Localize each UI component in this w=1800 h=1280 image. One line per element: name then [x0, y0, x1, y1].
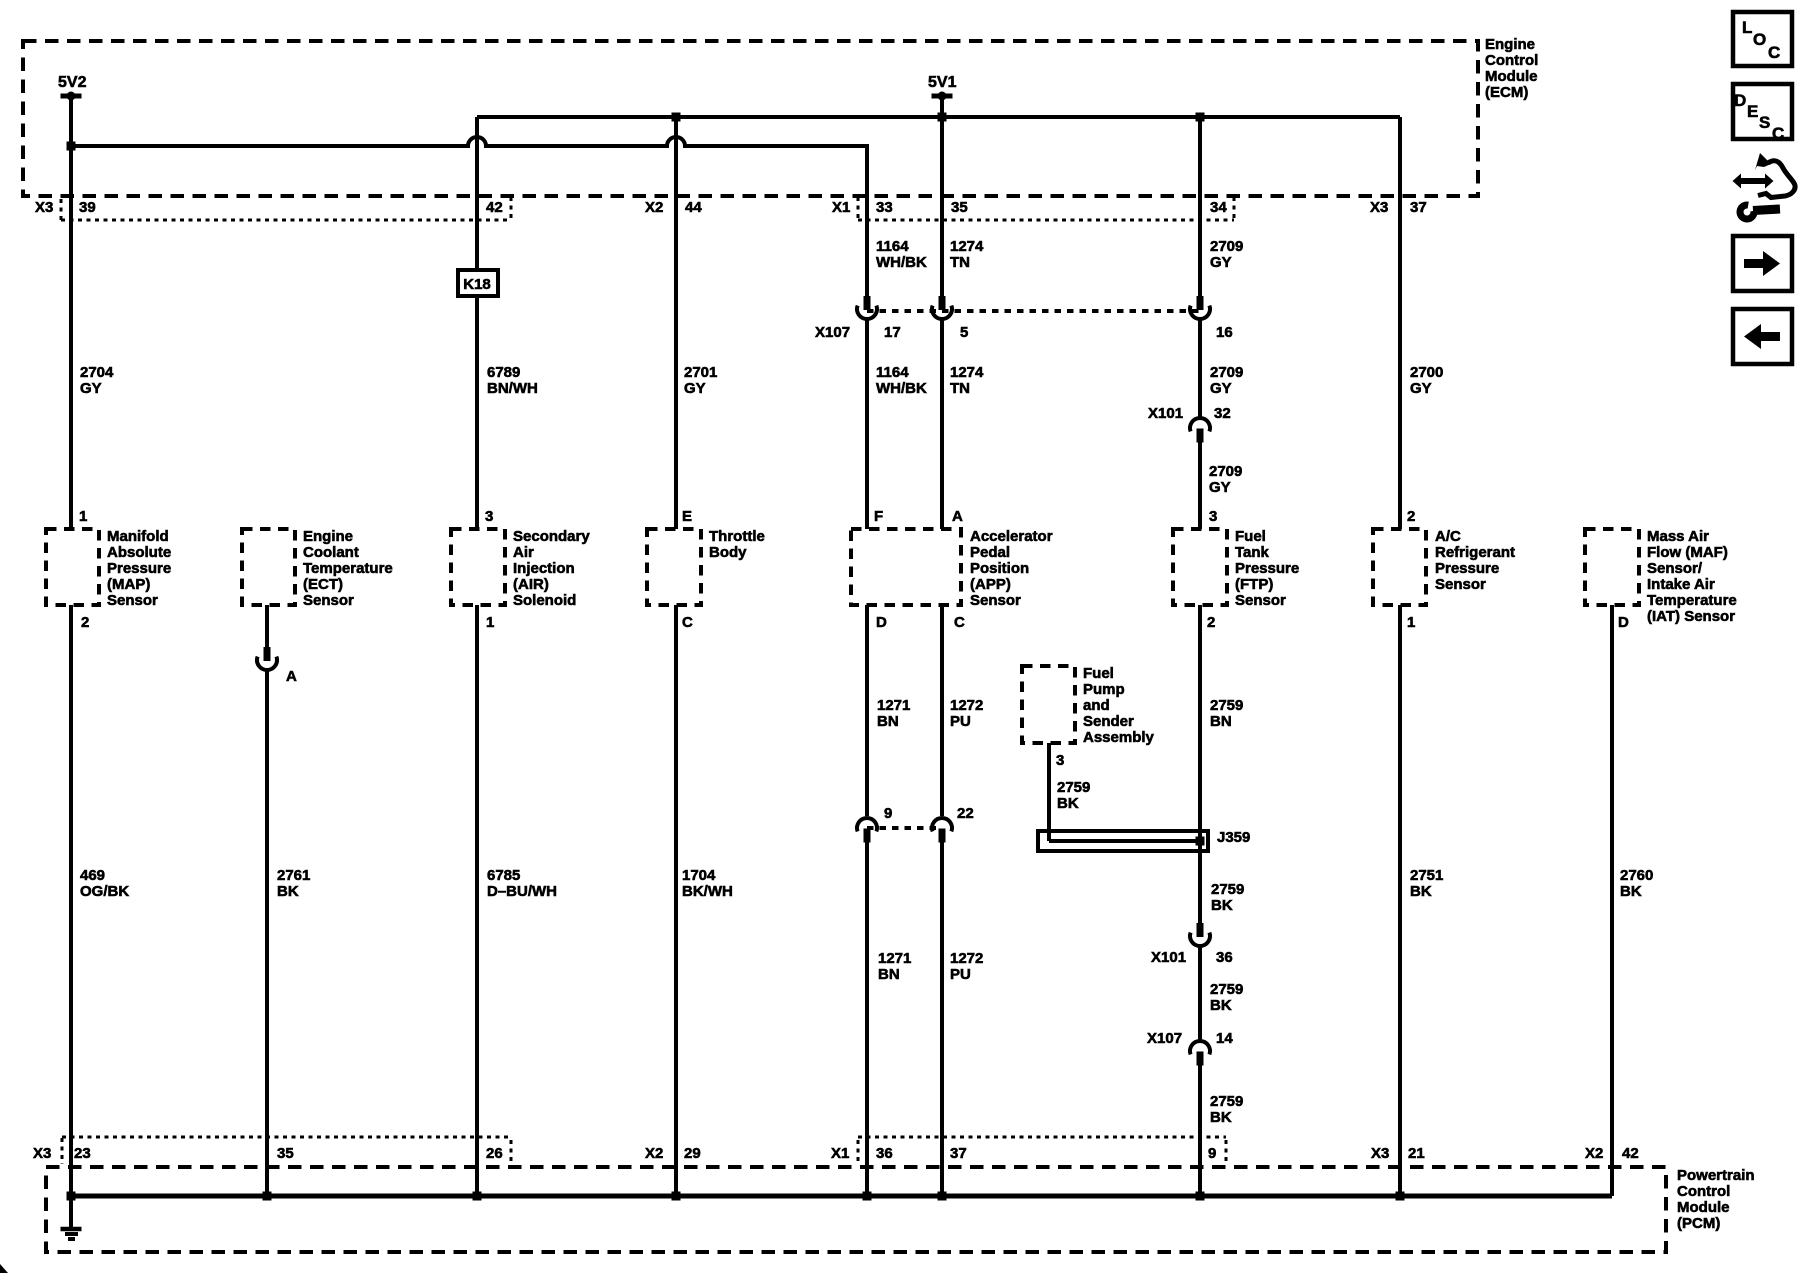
wire APP F column upper — [865, 196, 869, 296]
wire 5V2 bus to APP pin F (hops at AIR and TB columns) — [71, 137, 867, 196]
svg-text:Fuel: Fuel — [1235, 528, 1266, 545]
svg-text:Solenoid: Solenoid — [513, 592, 576, 609]
wire APP D column upper — [865, 605, 869, 816]
wire TB to PCM 29 — [674, 605, 678, 1196]
svg-text:32: 32 — [1214, 405, 1231, 422]
splice J359 — [1038, 831, 1208, 851]
svg-text:1272: 1272 — [950, 950, 983, 967]
svg-text:16: 16 — [1216, 324, 1233, 341]
connector ECT pin A — [264, 647, 271, 661]
svg-text:PU: PU — [950, 966, 971, 983]
svg-text:A/C: A/C — [1435, 528, 1461, 545]
svg-text:3: 3 — [1209, 508, 1217, 525]
svg-text:WH/BK: WH/BK — [876, 380, 927, 397]
node junction 5V1 — [938, 113, 947, 122]
svg-text:Absolute: Absolute — [107, 544, 171, 561]
relay box K18 — [458, 270, 498, 296]
svg-text:X1: X1 — [832, 199, 850, 216]
svg-text:X2: X2 — [645, 1145, 663, 1162]
ECT sensor box — [242, 529, 295, 605]
svg-text:C: C — [1768, 43, 1780, 62]
svg-text:Assembly: Assembly — [1083, 729, 1155, 746]
svg-text:L: L — [1742, 18, 1752, 37]
svg-text:3: 3 — [485, 508, 493, 525]
svg-text:TN: TN — [950, 254, 970, 271]
svg-text:5: 5 — [960, 324, 968, 341]
svg-text:(FTP): (FTP) — [1235, 576, 1273, 593]
connector pin 9 — [857, 818, 877, 831]
ECM X1 connector group dotted outline — [857, 197, 860, 221]
connector X107 pin 16 — [1197, 296, 1204, 310]
svg-text:D: D — [1734, 91, 1746, 110]
svg-text:Fuel: Fuel — [1083, 665, 1114, 682]
svg-text:42: 42 — [486, 199, 503, 216]
svg-text:35: 35 — [277, 1145, 294, 1162]
page corner artifact — [0, 1264, 8, 1273]
svg-text:5V1: 5V1 — [928, 74, 957, 91]
svg-text:X3: X3 — [1371, 1145, 1389, 1162]
svg-text:Intake Air: Intake Air — [1647, 576, 1715, 593]
svg-text:1: 1 — [1407, 614, 1415, 631]
svg-text:Control: Control — [1485, 52, 1538, 69]
svg-text:Position: Position — [970, 560, 1029, 577]
connector X101 pin 32 — [1190, 418, 1210, 431]
svg-text:(IAT) Sensor: (IAT) Sensor — [1647, 608, 1735, 625]
svg-text:BK: BK — [1210, 997, 1232, 1014]
ECM X3 connector group dotted outline — [60, 199, 63, 221]
svg-text:BK: BK — [1620, 883, 1642, 900]
svg-text:X107: X107 — [815, 324, 850, 341]
wire X101 to FTP sensor — [1198, 442, 1202, 529]
svg-text:1704: 1704 — [682, 867, 716, 884]
svg-text:Powertrain: Powertrain — [1677, 1167, 1755, 1184]
svg-text:Pressure: Pressure — [1435, 560, 1499, 577]
svg-text:Pump: Pump — [1083, 681, 1125, 698]
wire ECT to PCM 35 — [265, 671, 269, 1196]
svg-text:2759: 2759 — [1211, 881, 1244, 898]
svg-text:BK/WH: BK/WH — [682, 883, 733, 900]
svg-text:42: 42 — [1622, 1145, 1639, 1162]
svg-text:Sender: Sender — [1083, 713, 1134, 730]
connector X101 pin 36 — [1197, 923, 1204, 937]
svg-text:2759: 2759 — [1210, 1093, 1243, 1110]
svg-text:X3: X3 — [35, 199, 53, 216]
svg-text:Engine: Engine — [303, 528, 353, 545]
wire A/C column — [1398, 117, 1402, 529]
svg-text:Pedal: Pedal — [970, 544, 1010, 561]
wire X107-14 to PCM 9 — [1198, 1065, 1202, 1196]
svg-text:C: C — [682, 614, 693, 631]
svg-text:X2: X2 — [1585, 1145, 1603, 1162]
PCM X1 connector group dotted outline — [858, 1136, 1226, 1139]
svg-text:29: 29 — [684, 1145, 701, 1162]
svg-text:Temperature: Temperature — [1647, 592, 1737, 609]
connector pin 22 — [932, 818, 952, 831]
svg-text:BK: BK — [1210, 1109, 1232, 1126]
wire 5V1 down — [940, 96, 944, 117]
A/C pressure sensor box — [1373, 529, 1426, 605]
svg-text:J359: J359 — [1217, 829, 1250, 846]
svg-text:36: 36 — [876, 1145, 893, 1162]
svg-text:(AIR): (AIR) — [513, 576, 549, 593]
svg-text:GY: GY — [1209, 479, 1231, 496]
svg-text:2701: 2701 — [684, 364, 717, 381]
svg-text:BN: BN — [1210, 713, 1232, 730]
wire TB column to throttle body — [674, 117, 678, 529]
svg-text:1271: 1271 — [878, 950, 911, 967]
svg-text:X1: X1 — [831, 1145, 849, 1162]
wire ECT pigtail — [265, 605, 269, 647]
svg-text:2: 2 — [1207, 614, 1215, 631]
svg-text:Pressure: Pressure — [107, 560, 171, 577]
node junction TB column — [672, 113, 681, 122]
svg-text:X101: X101 — [1148, 405, 1183, 422]
svg-text:Body: Body — [709, 544, 747, 561]
svg-text:1274: 1274 — [950, 364, 984, 381]
svg-text:2759: 2759 — [1210, 981, 1243, 998]
icon DESC box — [1733, 84, 1792, 139]
throttle body box — [647, 529, 701, 605]
node bus junctions — [67, 1192, 76, 1201]
svg-text:C: C — [1772, 124, 1784, 143]
svg-text:OG/BK: OG/BK — [80, 883, 129, 900]
svg-text:Throttle: Throttle — [709, 528, 765, 545]
inline connector dotted line 9-22 — [867, 826, 942, 830]
svg-text:39: 39 — [79, 199, 96, 216]
svg-text:X2: X2 — [645, 199, 663, 216]
ground — [69, 1196, 73, 1228]
svg-text:Control: Control — [1677, 1183, 1730, 1200]
svg-text:17: 17 — [884, 324, 901, 341]
MAP sensor box — [46, 529, 99, 605]
svg-text:36: 36 — [1216, 949, 1233, 966]
svg-text:Injection: Injection — [513, 560, 575, 577]
svg-text:BK: BK — [277, 883, 299, 900]
icon forward arrow box — [1733, 236, 1792, 291]
svg-text:Air: Air — [513, 544, 534, 561]
PCM dashed box (Powertrain Control Module) — [46, 1167, 1666, 1252]
wire APP C column upper — [940, 605, 944, 816]
svg-text:469: 469 — [80, 867, 105, 884]
wire MAF to PCM 42 — [1610, 605, 1614, 1196]
wire APP D to PCM 36 — [865, 842, 869, 1196]
wire 5V1 bus from AIR column to A/C column — [477, 115, 1400, 119]
svg-text:37: 37 — [1410, 199, 1427, 216]
svg-text:Secondary: Secondary — [513, 528, 590, 545]
svg-text:1272: 1272 — [950, 697, 983, 714]
svg-text:21: 21 — [1408, 1145, 1425, 1162]
svg-text:1271: 1271 — [877, 697, 910, 714]
5V2 terminal — [61, 94, 82, 99]
svg-text:PU: PU — [950, 713, 971, 730]
wire FTP to splice — [1198, 605, 1202, 923]
wire X101-36 to X107-14 — [1198, 946, 1202, 1040]
svg-text:37: 37 — [950, 1145, 967, 1162]
icon wrench with arrows — [1733, 174, 1774, 189]
svg-text:Sensor: Sensor — [1435, 576, 1486, 593]
svg-text:23: 23 — [74, 1145, 91, 1162]
svg-text:BN/WH: BN/WH — [487, 380, 538, 397]
svg-text:14: 14 — [1216, 1030, 1233, 1047]
svg-text:BK: BK — [1057, 795, 1079, 812]
svg-text:(ECT): (ECT) — [303, 576, 343, 593]
svg-text:D: D — [876, 614, 887, 631]
svg-text:2709: 2709 — [1209, 463, 1242, 480]
svg-text:5V2: 5V2 — [58, 74, 87, 91]
svg-text:F: F — [874, 508, 883, 525]
svg-text:BK: BK — [1410, 883, 1432, 900]
svg-text:2759: 2759 — [1057, 779, 1090, 796]
svg-text:6785: 6785 — [487, 867, 520, 884]
icon LOC box — [1733, 12, 1792, 66]
svg-text:1: 1 — [79, 508, 87, 525]
svg-text:X3: X3 — [1370, 199, 1388, 216]
wire below K18 to AIR solenoid — [475, 296, 479, 529]
svg-text:2709: 2709 — [1210, 364, 1243, 381]
svg-text:(APP): (APP) — [970, 576, 1011, 593]
svg-text:35: 35 — [951, 199, 968, 216]
wire APP C to PCM 37 — [940, 842, 944, 1196]
svg-text:6789: 6789 — [487, 364, 520, 381]
svg-text:Flow (MAF): Flow (MAF) — [1647, 544, 1728, 561]
svg-text:GY: GY — [1210, 380, 1232, 397]
wire MAP to PCM 23 — [69, 605, 73, 1196]
svg-text:2759: 2759 — [1210, 697, 1243, 714]
svg-text:Sensor: Sensor — [303, 592, 354, 609]
svg-text:S: S — [1759, 113, 1770, 132]
svg-text:TN: TN — [950, 380, 970, 397]
svg-text:2709: 2709 — [1210, 238, 1243, 255]
wire 5V2 down to MAP column — [69, 96, 73, 529]
wire AIR to PCM 26 — [475, 605, 479, 1196]
svg-text:Sensor: Sensor — [107, 592, 158, 609]
svg-text:1164: 1164 — [876, 364, 909, 381]
svg-text:Refrigerant: Refrigerant — [1435, 544, 1515, 561]
svg-text:GY: GY — [1210, 254, 1232, 271]
svg-text:Pressure: Pressure — [1235, 560, 1299, 577]
wire APP F column to sensor — [865, 320, 869, 529]
svg-text:BK: BK — [1211, 897, 1233, 914]
wire A/C to PCM 21 — [1398, 605, 1402, 1196]
wire AIR column from 5V1 bus through pin 42 — [475, 117, 479, 270]
svg-text:X107: X107 — [1147, 1030, 1182, 1047]
svg-text:33: 33 — [876, 199, 893, 216]
wire APP A column upper — [940, 117, 944, 296]
FTP sensor box — [1173, 529, 1227, 605]
svg-text:9: 9 — [884, 805, 892, 822]
svg-text:X3: X3 — [33, 1145, 51, 1162]
5V1 terminal — [932, 94, 953, 99]
svg-text:C: C — [954, 614, 965, 631]
svg-text:E: E — [1747, 102, 1758, 121]
svg-text:3: 3 — [1056, 752, 1064, 769]
node junction FTP column — [1196, 113, 1205, 122]
svg-text:22: 22 — [957, 805, 974, 822]
svg-text:1274: 1274 — [950, 238, 984, 255]
APP sensor box — [851, 529, 961, 605]
inline connector X107 dotted line — [867, 309, 1200, 313]
PCM X3 connector group dotted outline — [62, 1136, 511, 1139]
icon back arrow box — [1733, 309, 1792, 364]
svg-text:2: 2 — [81, 614, 89, 631]
svg-text:A: A — [952, 508, 963, 525]
svg-text:GY: GY — [80, 380, 102, 397]
svg-text:K18: K18 — [463, 276, 491, 293]
svg-text:Sensor: Sensor — [970, 592, 1021, 609]
svg-text:2704: 2704 — [80, 364, 114, 381]
svg-text:GY: GY — [684, 380, 706, 397]
svg-text:GY: GY — [1410, 380, 1432, 397]
svg-text:2700: 2700 — [1410, 364, 1443, 381]
node 5V2 bus junction — [67, 142, 76, 151]
svg-text:34: 34 — [1210, 199, 1227, 216]
svg-text:Mass Air: Mass Air — [1647, 528, 1709, 545]
svg-text:X101: X101 — [1151, 949, 1186, 966]
svg-text:Engine: Engine — [1485, 36, 1535, 53]
wire FTP column upper — [1198, 117, 1202, 296]
connector X107 pin 17 — [864, 296, 871, 310]
svg-text:2751: 2751 — [1410, 867, 1443, 884]
svg-text:O: O — [1753, 30, 1766, 49]
svg-text:and: and — [1083, 697, 1110, 714]
svg-text:Module: Module — [1485, 68, 1538, 85]
svg-text:9: 9 — [1208, 1145, 1216, 1162]
svg-text:2760: 2760 — [1620, 867, 1653, 884]
svg-text:1: 1 — [486, 614, 494, 631]
svg-text:(PCM): (PCM) — [1677, 1215, 1720, 1232]
svg-text:2: 2 — [1407, 508, 1415, 525]
svg-text:A: A — [286, 668, 297, 685]
svg-text:Temperature: Temperature — [303, 560, 393, 577]
svg-text:E: E — [682, 508, 692, 525]
svg-text:D–BU/WH: D–BU/WH — [487, 883, 557, 900]
wire PCM ground bus — [71, 1194, 1612, 1199]
svg-text:WH/BK: WH/BK — [876, 254, 927, 271]
connector X107 pin 14 — [1190, 1041, 1210, 1054]
svg-text:2761: 2761 — [277, 867, 310, 884]
svg-text:Sensor/: Sensor/ — [1647, 560, 1703, 577]
svg-text:(MAP): (MAP) — [107, 576, 150, 593]
fuel pump and sender assembly box — [1022, 666, 1075, 743]
svg-text:Coolant: Coolant — [303, 544, 359, 561]
svg-text:Manifold: Manifold — [107, 528, 169, 545]
svg-text:26: 26 — [486, 1145, 503, 1162]
svg-text:44: 44 — [685, 199, 702, 216]
svg-text:Tank: Tank — [1235, 544, 1270, 561]
svg-text:Sensor: Sensor — [1235, 592, 1286, 609]
svg-text:(ECM): (ECM) — [1485, 84, 1528, 101]
wire FTP column to X101 — [1198, 320, 1202, 418]
svg-text:Module: Module — [1677, 1199, 1730, 1216]
svg-text:D: D — [1618, 614, 1629, 631]
ECM dashed box (Engine Control Module) — [23, 41, 1478, 196]
svg-text:Accelerator: Accelerator — [970, 528, 1053, 545]
svg-text:BN: BN — [877, 713, 899, 730]
wire APP A column to sensor — [940, 320, 944, 529]
svg-text:BN: BN — [878, 966, 900, 983]
wire fuel pump to splice — [1047, 743, 1051, 841]
AIR solenoid box — [451, 529, 505, 605]
svg-text:1164: 1164 — [876, 238, 909, 255]
connector X107 pin 5 — [939, 296, 946, 310]
MAF/IAT sensor box — [1585, 529, 1639, 605]
